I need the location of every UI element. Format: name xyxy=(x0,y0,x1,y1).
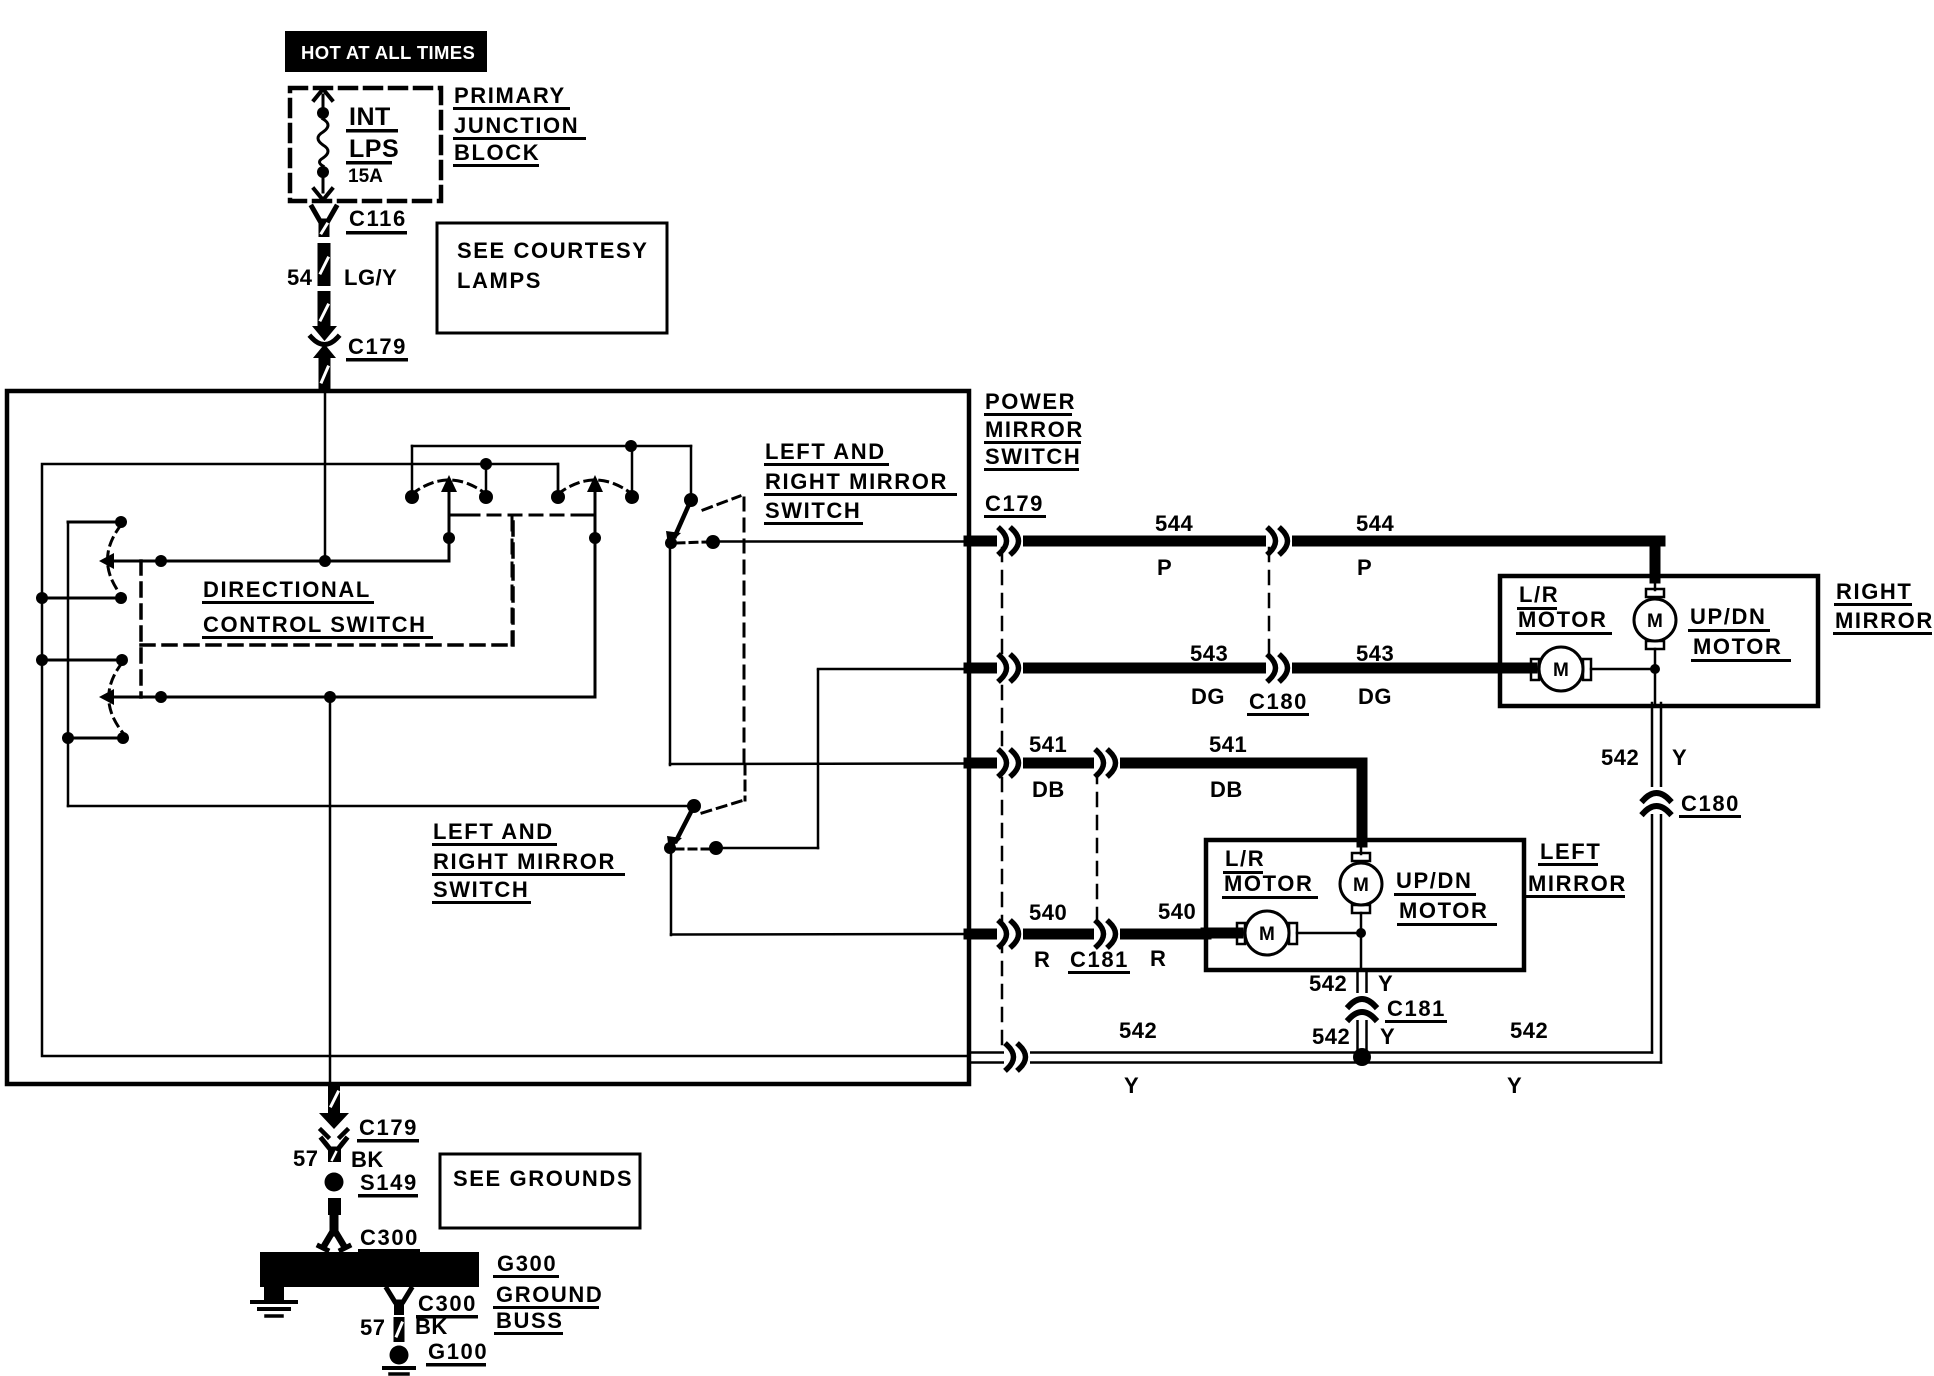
connector C180 dashed boundary xyxy=(1268,548,1271,662)
svg-text:Y: Y xyxy=(1124,1073,1139,1098)
svg-text:57: 57 xyxy=(293,1146,318,1171)
svg-text:SWITCH: SWITCH xyxy=(433,877,529,902)
connector C116 xyxy=(312,207,336,221)
directional switch dashed housing xyxy=(139,561,143,697)
contact arc 1 xyxy=(412,480,486,494)
power label HOT AT ALL TIMES xyxy=(285,31,487,72)
wire from upper armature pivot xyxy=(669,546,672,765)
svg-text:MIRROR: MIRROR xyxy=(985,417,1084,442)
mechanical coupling dashes xyxy=(449,514,467,517)
svg-text:RIGHT MIRROR: RIGHT MIRROR xyxy=(433,849,616,874)
G300 ground buss bar xyxy=(260,1252,479,1287)
right up/dn motor M xyxy=(1654,576,1657,590)
wire 540 xyxy=(969,929,1206,940)
wire 544 xyxy=(969,536,1660,547)
splice S149 xyxy=(325,1173,344,1192)
wire 540 inside switch xyxy=(671,933,969,936)
wire to lower mirror-switch contact xyxy=(68,805,694,808)
svg-text:C179: C179 xyxy=(359,1115,418,1140)
svg-text:HOT AT ALL TIMES: HOT AT ALL TIMES xyxy=(301,42,475,63)
svg-text:BK: BK xyxy=(351,1147,384,1172)
svg-text:L/R: L/R xyxy=(1519,582,1559,607)
svg-text:BLOCK: BLOCK xyxy=(454,140,540,165)
svg-text:C180: C180 xyxy=(1249,689,1308,714)
wire from C179 into switch xyxy=(324,391,327,561)
svg-text:C179: C179 xyxy=(985,491,1044,516)
ground return wire to C179 bottom xyxy=(329,697,332,1084)
left contact stub b xyxy=(42,597,121,600)
svg-text:SWITCH: SWITCH xyxy=(765,498,861,523)
svg-text:C180: C180 xyxy=(1681,791,1740,816)
svg-text:MIRROR: MIRROR xyxy=(1835,608,1934,633)
svg-text:LEFT AND: LEFT AND xyxy=(433,819,554,844)
svg-text:542: 542 xyxy=(1510,1018,1548,1043)
connector C179 bottom xyxy=(319,1113,349,1129)
connector C300 second xyxy=(387,1289,411,1302)
ground symbol left xyxy=(264,1287,284,1300)
left mirror assembly box xyxy=(1206,840,1524,970)
left up/dn motor M xyxy=(1360,840,1363,854)
connector C181 dashed boundary xyxy=(1096,770,1099,928)
wire wiper2 to left contacts xyxy=(112,696,595,699)
contact row dots xyxy=(405,490,419,504)
svg-text:L/R: L/R xyxy=(1225,846,1265,871)
svg-text:M: M xyxy=(1553,660,1569,681)
lower mirror-select armature xyxy=(687,799,701,813)
connector C180 pin on wire 543 xyxy=(1266,659,1292,677)
svg-text:BUSS: BUSS xyxy=(496,1308,564,1333)
svg-text:544: 544 xyxy=(1356,511,1394,536)
svg-text:C181: C181 xyxy=(1387,996,1446,1021)
note box SEE COURTESY LAMPS xyxy=(437,223,667,333)
left contact cluster vertical xyxy=(67,522,70,806)
upper mirror-select armature xyxy=(684,493,698,507)
svg-text:RIGHT: RIGHT xyxy=(1836,579,1912,604)
svg-text:C300: C300 xyxy=(360,1225,419,1250)
contact arc 2 xyxy=(558,480,632,494)
left arc 2 xyxy=(109,663,123,733)
svg-text:GROUND: GROUND xyxy=(496,1282,603,1307)
right motor junction node xyxy=(1650,664,1660,674)
left contact stub a xyxy=(68,521,121,524)
wire 544 inside switch xyxy=(713,540,969,543)
svg-text:57: 57 xyxy=(360,1315,385,1340)
wire 57 BK to ground xyxy=(328,1084,340,1114)
svg-text:R: R xyxy=(1034,947,1050,972)
connector C180 pin on wire 544 xyxy=(1266,532,1292,550)
svg-text:M: M xyxy=(1353,875,1369,896)
svg-text:RIGHT MIRROR: RIGHT MIRROR xyxy=(765,469,948,494)
connector C181 pin on wire 541 xyxy=(1094,754,1120,772)
svg-text:G100: G100 xyxy=(428,1339,488,1364)
wire 541 xyxy=(969,758,1362,769)
connector C181 pin on wire 540 xyxy=(1094,925,1120,943)
right mirror assembly box xyxy=(1500,576,1818,706)
left l/r motor M xyxy=(1206,928,1238,939)
svg-text:MOTOR: MOTOR xyxy=(1693,634,1782,659)
svg-text:543: 543 xyxy=(1356,641,1394,666)
directional switch feed bus upper xyxy=(412,445,691,448)
svg-text:P: P xyxy=(1157,555,1172,580)
lower armature alternate position dashes xyxy=(702,801,741,813)
svg-text:S149: S149 xyxy=(360,1170,418,1195)
svg-text:DB: DB xyxy=(1032,777,1065,802)
svg-text:15A: 15A xyxy=(348,166,383,187)
svg-text:540: 540 xyxy=(1029,900,1067,925)
ground G100 xyxy=(390,1346,409,1365)
svg-text:54: 54 xyxy=(287,265,313,290)
svg-text:541: 541 xyxy=(1029,732,1067,757)
node 542 junction xyxy=(1353,1048,1371,1066)
connector C179 dashed boundary xyxy=(1001,548,1004,1048)
svg-text:PRIMARY: PRIMARY xyxy=(454,83,566,108)
svg-text:SWITCH: SWITCH xyxy=(985,444,1081,469)
svg-text:JUNCTION: JUNCTION xyxy=(454,113,579,138)
svg-text:M: M xyxy=(1647,611,1663,632)
svg-text:C300: C300 xyxy=(418,1291,477,1316)
svg-text:541: 541 xyxy=(1209,732,1247,757)
svg-text:G300: G300 xyxy=(497,1251,557,1276)
svg-text:MOTOR: MOTOR xyxy=(1224,871,1313,896)
fuse INT LPS 15A xyxy=(314,89,332,100)
wire 542 ground return (double line) xyxy=(969,1051,1652,1054)
svg-text:DG: DG xyxy=(1191,684,1225,709)
left arc 1 xyxy=(108,525,122,595)
svg-text:CONTROL SWITCH: CONTROL SWITCH xyxy=(203,612,427,637)
connector C300 xyxy=(328,1198,341,1215)
svg-text:DG: DG xyxy=(1358,684,1392,709)
wire 542 left mirror drop xyxy=(1356,970,1359,1053)
switch housing inner outline / 542 return path xyxy=(42,464,969,1056)
svg-text:BK: BK xyxy=(415,1314,448,1339)
connector C179 pin on wire 544 xyxy=(997,532,1023,550)
connector C179 top xyxy=(312,326,337,341)
svg-text:DIRECTIONAL: DIRECTIONAL xyxy=(203,577,371,602)
svg-text:Y: Y xyxy=(1672,745,1687,770)
connector C179 pin on wire 540 xyxy=(997,925,1023,943)
right l/r motor M xyxy=(1500,663,1532,674)
svg-text:540: 540 xyxy=(1158,899,1196,924)
svg-text:P: P xyxy=(1357,555,1372,580)
node feed junction xyxy=(319,555,331,567)
wiper arrow 2 xyxy=(594,489,597,697)
svg-text:LPS: LPS xyxy=(349,135,399,163)
svg-text:542: 542 xyxy=(1119,1018,1157,1043)
wire 543 xyxy=(969,663,1500,674)
svg-text:542: 542 xyxy=(1309,971,1347,996)
svg-text:MIRROR: MIRROR xyxy=(1528,871,1627,896)
svg-text:Y: Y xyxy=(1380,1024,1395,1049)
svg-text:UP/DN: UP/DN xyxy=(1690,604,1766,629)
connector C180 pin on right mirror 542 xyxy=(1646,787,1668,814)
wire 543 inside switch xyxy=(818,668,969,671)
svg-text:543: 543 xyxy=(1190,641,1228,666)
svg-text:SEE COURTESY: SEE COURTESY xyxy=(457,238,649,263)
svg-text:LEFT: LEFT xyxy=(1540,839,1601,864)
wire 54 LG/Y xyxy=(318,243,331,286)
svg-text:Y: Y xyxy=(1507,1073,1522,1098)
svg-text:542: 542 xyxy=(1601,745,1639,770)
primary junction block dashed box xyxy=(290,88,441,201)
svg-text:R: R xyxy=(1150,946,1166,971)
svg-text:LEFT AND: LEFT AND xyxy=(765,439,886,464)
directional switch feed bus lower xyxy=(485,464,488,497)
armature alternate position dashes xyxy=(703,496,740,510)
connector C181 pin on left mirror 542 xyxy=(1351,993,1373,1020)
svg-text:C181: C181 xyxy=(1070,947,1129,972)
svg-text:POWER: POWER xyxy=(985,389,1076,414)
svg-text:M: M xyxy=(1259,924,1275,945)
connector C179 pin on wire 541 xyxy=(997,754,1023,772)
svg-text:542: 542 xyxy=(1312,1024,1350,1049)
note box SEE GROUNDS xyxy=(440,1154,640,1228)
svg-text:MOTOR: MOTOR xyxy=(1399,898,1488,923)
left motor junction node xyxy=(1356,928,1366,938)
svg-text:544: 544 xyxy=(1155,511,1193,536)
svg-text:INT: INT xyxy=(349,103,391,131)
wire wiper1 to left contacts xyxy=(112,560,449,563)
svg-text:C179: C179 xyxy=(348,334,407,359)
svg-text:LG/Y: LG/Y xyxy=(344,265,397,290)
svg-text:SEE GROUNDS: SEE GROUNDS xyxy=(453,1166,633,1191)
wiper arrow 1 xyxy=(448,489,451,561)
svg-text:DB: DB xyxy=(1210,777,1243,802)
svg-text:UP/DN: UP/DN xyxy=(1396,868,1472,893)
connector C179 pin on wire 542 xyxy=(1004,1048,1030,1066)
svg-text:Y: Y xyxy=(1378,971,1393,996)
svg-text:MOTOR: MOTOR xyxy=(1518,607,1607,632)
connector C179 pin on wire 543 xyxy=(997,659,1023,677)
wire 542 right mirror drop xyxy=(1651,703,1654,1053)
svg-text:C116: C116 xyxy=(349,206,407,231)
wire 541 inside switch xyxy=(670,762,969,765)
left contact stub c xyxy=(42,659,122,662)
left contact stub d xyxy=(68,737,123,740)
power mirror switch outer box xyxy=(7,391,969,1084)
svg-text:LAMPS: LAMPS xyxy=(457,268,542,293)
wire from lower armature pivot xyxy=(670,850,673,935)
